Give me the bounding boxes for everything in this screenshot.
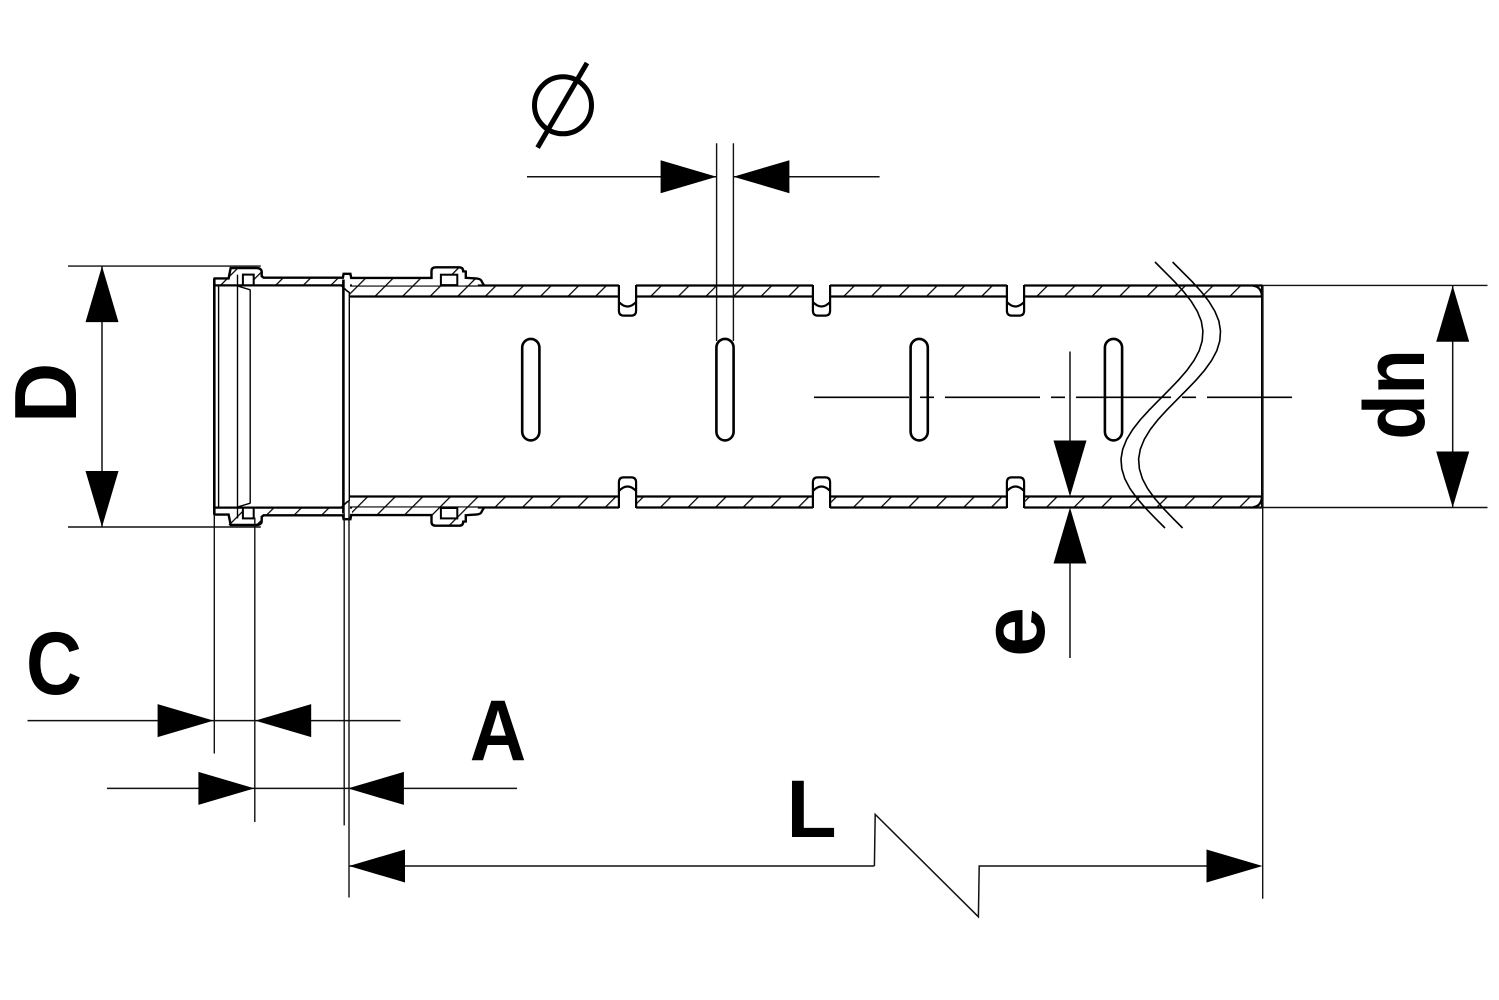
centerline	[814, 396, 1292, 398]
dimension dn	[1262, 284, 1488, 286]
slot cut section bottom wall 3	[1007, 477, 1024, 508]
diameter dimension line	[527, 176, 717, 178]
socket mouth face	[213, 278, 216, 514]
dimension A	[107, 787, 517, 789]
slot cut section top wall 2	[813, 285, 830, 316]
socket ring bulge notch top	[441, 275, 457, 285]
socket cavity lines	[237, 275, 239, 519]
socket bottom outer profile	[214, 508, 485, 526]
pipe top wall hatched band	[350, 283, 1263, 299]
svg-text:D: D	[0, 363, 95, 423]
socket hatched bands	[219, 268, 478, 526]
pipe bottom wall hatched band	[350, 494, 1263, 510]
socket top outer profile	[214, 267, 485, 285]
diameter symbol	[535, 77, 592, 134]
slot cut section bottom wall 2	[813, 477, 830, 508]
diameter arrows	[661, 160, 717, 193]
svg-text:L: L	[786, 764, 836, 855]
face slot 4	[1105, 339, 1122, 441]
slot cut section bottom wall 1	[619, 477, 636, 508]
svg-text:e: e	[964, 607, 1064, 657]
socket ring bulge notch bottom	[441, 508, 457, 518]
diameter extension lines	[716, 143, 718, 341]
dimension L	[349, 865, 874, 867]
socket cavity end wall	[342, 280, 345, 514]
face slot 2	[716, 339, 733, 441]
slot cut section top wall 1	[619, 285, 636, 316]
svg-text:C: C	[26, 613, 82, 713]
dimension e	[1069, 352, 1071, 442]
socket seal groove notch bottom	[243, 508, 254, 519]
svg-text:dn: dn	[1346, 349, 1443, 439]
dimension D	[68, 265, 261, 267]
face slot 1	[522, 339, 539, 441]
dimension C	[28, 720, 401, 722]
slot cut section top wall 3	[1007, 285, 1024, 316]
pipe end cap right	[1261, 286, 1264, 507]
socket seal groove notch top	[243, 275, 254, 286]
svg-text:A: A	[470, 684, 527, 779]
break lines	[1121, 262, 1203, 528]
face slot 3	[911, 339, 928, 441]
